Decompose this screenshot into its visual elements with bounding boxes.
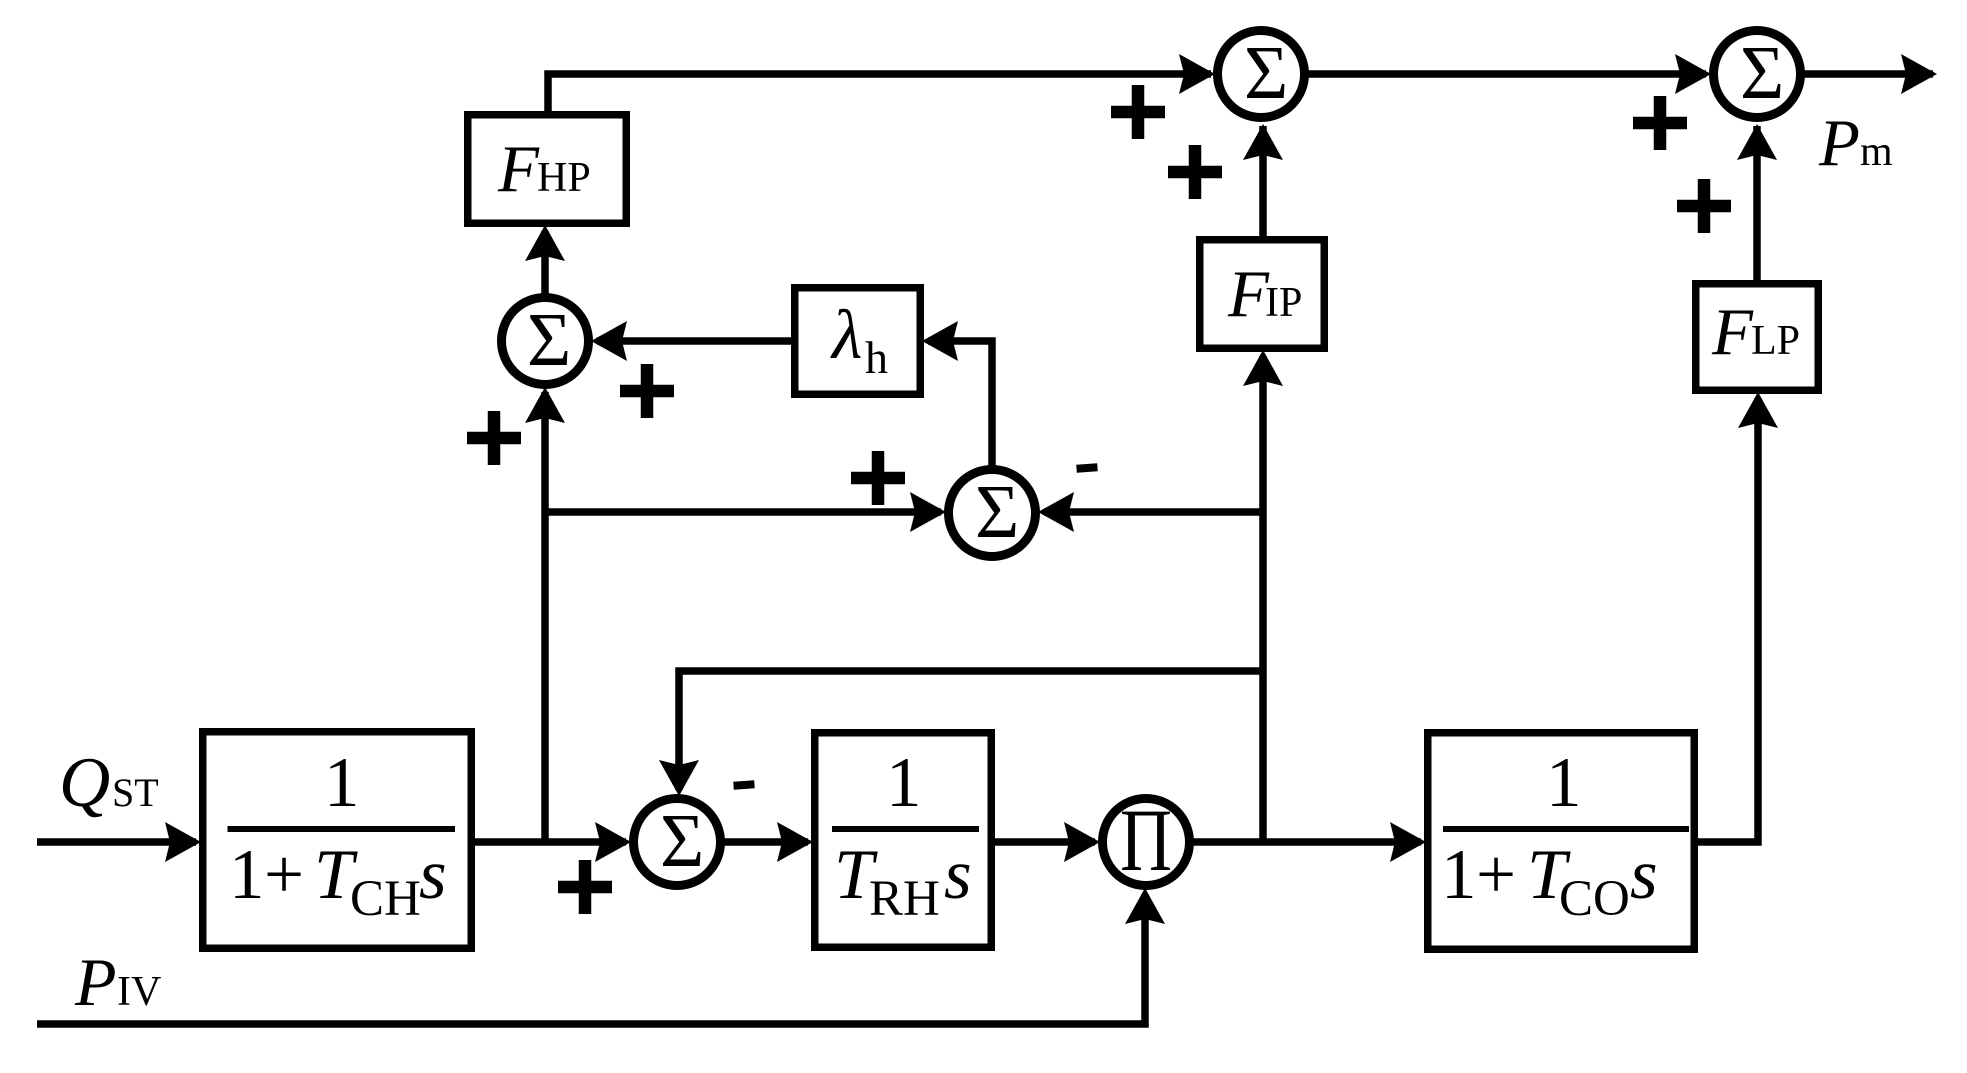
wire lambda_h to left sum bbox=[597, 337, 793, 345]
svg-text:Σ: Σ bbox=[975, 470, 1019, 554]
sum S2 (top right) bbox=[1714, 31, 1801, 118]
svg-text:Π: Π bbox=[1120, 792, 1172, 890]
wire product output to T_CO bbox=[1190, 838, 1421, 846]
wire junction to mid sum bbox=[545, 508, 941, 516]
svg-text:CH: CH bbox=[350, 871, 421, 927]
block 1/(1+T_CH s) bbox=[203, 732, 472, 949]
arrowhead into product bbox=[1064, 822, 1100, 862]
wire T_CO output to F_LP bbox=[1696, 398, 1758, 842]
svg-text:1: 1 bbox=[1546, 744, 1582, 822]
minus at bottom sum top input bbox=[734, 784, 755, 785]
svg-text:1: 1 bbox=[229, 836, 265, 914]
svg-text:1: 1 bbox=[324, 744, 360, 822]
svg-text:IP: IP bbox=[1265, 280, 1302, 326]
arrowhead into sum S2 bbox=[1675, 54, 1711, 94]
arrowhead output Pm bbox=[1901, 54, 1937, 94]
svg-text:CO: CO bbox=[1559, 871, 1630, 927]
plus at S1 bottom input bbox=[1168, 145, 1222, 199]
arrowhead into T_RH bbox=[777, 822, 813, 862]
middle sum bbox=[949, 470, 1036, 557]
arrowhead into bottom sum left bbox=[595, 822, 631, 862]
arrowhead into F_LP bbox=[1738, 392, 1778, 428]
svg-text:h: h bbox=[865, 332, 888, 383]
block F_LP bbox=[1696, 284, 1819, 391]
plus at left sum right input bbox=[620, 364, 674, 418]
svg-text:Σ: Σ bbox=[1740, 31, 1784, 115]
svg-text:RH: RH bbox=[869, 871, 940, 927]
plus at S2 bottom input bbox=[1677, 179, 1731, 233]
block F_HP bbox=[468, 115, 627, 224]
svg-text:F: F bbox=[497, 132, 540, 206]
plus at left sum bottom input bbox=[467, 411, 521, 465]
svg-text:Q: Q bbox=[59, 744, 110, 822]
svg-text:P: P bbox=[74, 944, 117, 1020]
svg-text:+: + bbox=[264, 836, 304, 914]
wire F_LP to S2 bbox=[1753, 126, 1761, 282]
arrowhead into F_IP bbox=[1243, 350, 1283, 386]
svg-text:Σ: Σ bbox=[1244, 31, 1288, 115]
wire Q_ST input bbox=[37, 838, 196, 846]
plus at S1 left input bbox=[1111, 85, 1165, 139]
block 1/(1+T_CO s) bbox=[1428, 733, 1695, 950]
svg-text:ST: ST bbox=[112, 770, 159, 815]
wire vertical into left sum bottom bbox=[541, 392, 549, 842]
svg-text:Σ: Σ bbox=[660, 799, 704, 883]
svg-text:+: + bbox=[1476, 836, 1516, 914]
arrowhead into bottom sum top bbox=[659, 760, 699, 796]
svg-text:HP: HP bbox=[537, 155, 591, 201]
svg-text:s: s bbox=[419, 836, 447, 914]
minus at middle sum right input bbox=[1077, 467, 1098, 468]
product junction bbox=[1103, 792, 1190, 890]
arrowhead into S2 bottom bbox=[1737, 124, 1777, 160]
wire F_IP to S1 bbox=[1259, 126, 1267, 238]
svg-text:F: F bbox=[1227, 257, 1270, 331]
svg-text:λ: λ bbox=[830, 297, 862, 374]
svg-text:1: 1 bbox=[1441, 836, 1477, 914]
wire right input to mid sum bbox=[1044, 508, 1263, 516]
wire F_HP output to top sum S1 bbox=[548, 74, 1211, 113]
arrowhead into left sum bbox=[591, 321, 627, 361]
plus at S2 left input bbox=[1633, 96, 1687, 150]
arrowhead into T_CH bbox=[165, 822, 201, 862]
arrowhead into lambda_h bbox=[922, 321, 958, 361]
plus at middle sum left input bbox=[851, 451, 905, 505]
svg-text:LP: LP bbox=[1751, 318, 1800, 364]
wire S2 output Pm bbox=[1802, 70, 1933, 78]
block F_IP bbox=[1200, 240, 1325, 349]
arrowhead into sum S1 bbox=[1179, 54, 1215, 94]
block lambda_h bbox=[795, 288, 921, 395]
arrowhead into F_HP bbox=[525, 225, 565, 261]
svg-text:s: s bbox=[944, 836, 972, 914]
arrowhead into left sum bottom bbox=[525, 387, 565, 423]
wire bottom sum to T_RH bbox=[721, 838, 808, 846]
svg-text:P: P bbox=[1818, 106, 1860, 180]
svg-text:IV: IV bbox=[117, 969, 161, 1015]
wire vertical into F_IP bbox=[1259, 356, 1267, 842]
bottom sum bbox=[634, 799, 721, 886]
wire P_IV input bbox=[37, 894, 1145, 1024]
block 1/(T_RH s) bbox=[815, 733, 992, 948]
svg-text:s: s bbox=[1630, 836, 1658, 914]
wire left sum to F_HP bbox=[541, 231, 549, 294]
arrowhead into S1 bottom bbox=[1243, 124, 1283, 160]
left sum bbox=[502, 298, 589, 385]
wire S1 to S2 bbox=[1306, 70, 1706, 78]
wire T_RH to product bbox=[993, 838, 1095, 846]
wire reheat feedback to bottom sum bbox=[679, 671, 1263, 790]
svg-text:1: 1 bbox=[886, 744, 922, 822]
arrowhead into T_CO bbox=[1390, 822, 1426, 862]
wire T_CH output to bottom sum bbox=[473, 838, 626, 846]
plus at bottom sum left input bbox=[558, 860, 612, 914]
svg-text:Σ: Σ bbox=[527, 298, 571, 382]
svg-text:F: F bbox=[1711, 295, 1754, 369]
svg-text:m: m bbox=[1860, 129, 1893, 175]
arrowhead into mid sum left bbox=[910, 492, 946, 532]
sum S1 (top left) bbox=[1218, 31, 1305, 118]
arrowhead into mid sum right bbox=[1038, 492, 1074, 532]
arrowhead into product bottom bbox=[1125, 888, 1165, 924]
wire mid sum up to lambda_h bbox=[928, 341, 992, 467]
